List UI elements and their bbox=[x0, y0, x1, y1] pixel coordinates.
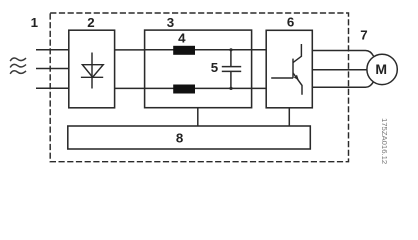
svg-text:1: 1 bbox=[31, 15, 39, 30]
svg-text:175ZA016.12: 175ZA016.12 bbox=[380, 118, 389, 164]
svg-text:3: 3 bbox=[167, 15, 174, 30]
svg-text:4: 4 bbox=[178, 30, 186, 45]
svg-text:6: 6 bbox=[287, 15, 294, 30]
svg-text:M: M bbox=[375, 61, 387, 77]
svg-text:7: 7 bbox=[360, 28, 367, 43]
svg-text:8: 8 bbox=[176, 130, 183, 145]
svg-text:2: 2 bbox=[87, 15, 94, 30]
svg-text:5: 5 bbox=[211, 60, 219, 75]
